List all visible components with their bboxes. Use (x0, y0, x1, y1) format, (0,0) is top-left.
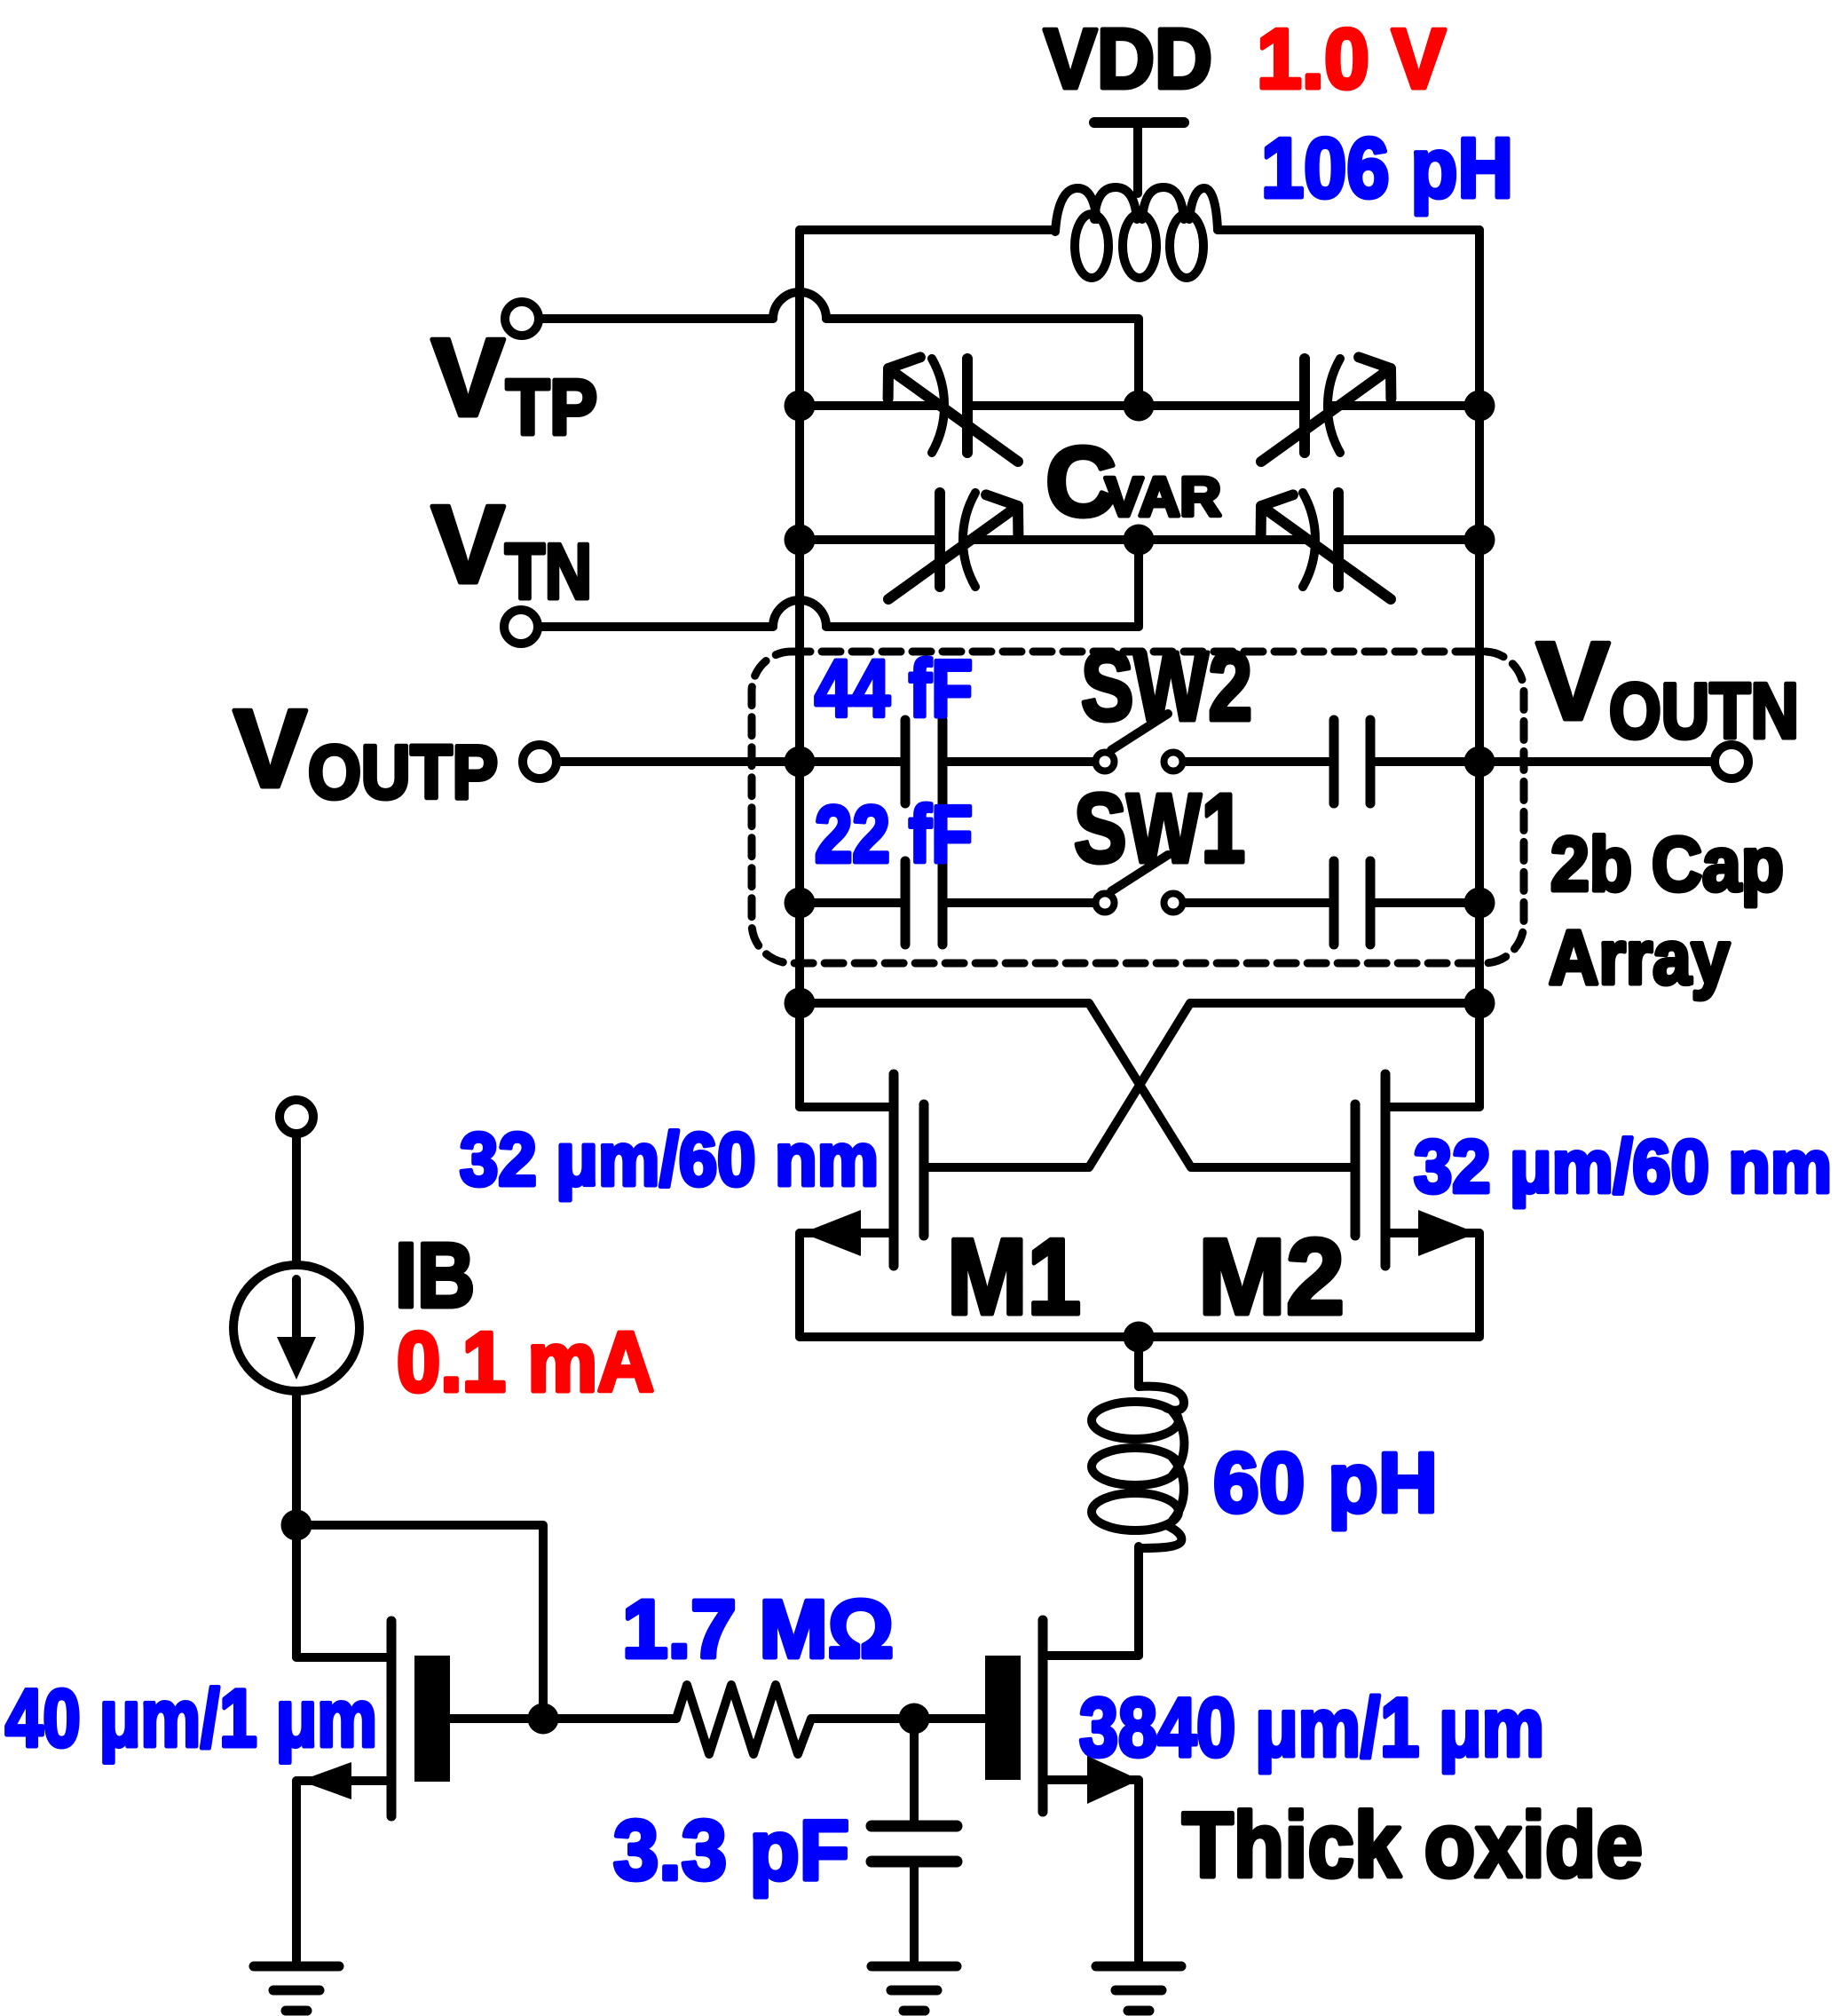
VDD supply bar symbol (1094, 117, 1184, 128)
svg-text:M1: M1 (947, 1216, 1081, 1337)
node tail (1124, 1322, 1155, 1353)
node row1 left (785, 391, 816, 422)
node IB mirror (281, 1510, 312, 1541)
terminal VTP (505, 302, 539, 336)
svg-text:V: V (1536, 621, 1610, 743)
capacitor 44fF left plates (901, 720, 911, 803)
ground C5 (872, 1962, 957, 1972)
resistor R1 1.7 MOhm (543, 1714, 676, 1723)
wire VOUTN (1479, 757, 1715, 766)
inductor L2 60 pH coil (1092, 1402, 1179, 1439)
varactor C3 curved plate (963, 493, 975, 587)
wire hop over left rail (VTN) (773, 600, 826, 627)
varactor C3 arrow (888, 494, 1018, 599)
svg-text:TN: TN (505, 527, 592, 615)
node M3 gate (899, 1704, 930, 1735)
svg-text:SW2: SW2 (1081, 632, 1252, 741)
svg-text:Thick oxide: Thick oxide (1182, 1794, 1643, 1897)
varactor row1 left lead (800, 401, 943, 410)
varactor C4 curved plate (1303, 493, 1315, 587)
wire row A to SW2 (948, 757, 1094, 766)
svg-text:Array: Array (1549, 915, 1730, 1000)
node row2 right (1464, 525, 1495, 556)
varactor C2 arrow (1261, 357, 1391, 462)
svg-text:32 μm/60 nm: 32 μm/60 nm (460, 1118, 879, 1201)
tail rail (800, 1332, 1479, 1341)
node row1 right (1464, 391, 1495, 422)
terminal VOUTP (523, 745, 556, 779)
cap array row A left lead (800, 757, 900, 766)
svg-text:IB: IB (395, 1224, 475, 1326)
varactor C1 arrow (888, 357, 1018, 462)
inductor L1 106 pH coil (1075, 214, 1108, 278)
svg-text:TP: TP (506, 363, 597, 451)
varactor C4 arrow (1261, 494, 1391, 599)
ground M4 (254, 1962, 339, 1972)
varactor row1 mid lead left (967, 401, 1139, 410)
svg-text:VDD: VDD (1044, 12, 1212, 107)
current source IB terminal (280, 1100, 313, 1134)
node rowA right (1464, 747, 1495, 778)
cap array row B left lead (800, 898, 900, 907)
svg-text:VAR: VAR (1105, 467, 1221, 528)
cap array row B right lead (1376, 898, 1479, 907)
svg-text:32 μm/60 nm: 32 μm/60 nm (1414, 1125, 1832, 1208)
capacitor 22fF left plates (901, 861, 911, 945)
varactor row2 mid lead left (963, 535, 1139, 544)
svg-text:SW1: SW1 (1074, 774, 1245, 883)
svg-text:V: V (431, 317, 505, 439)
varactor row2 left lead (800, 535, 935, 544)
varactor C1 straight plate (962, 359, 973, 453)
svg-text:M2: M2 (1198, 1216, 1345, 1337)
capacitor 22fF right plates (1329, 861, 1339, 945)
node row2 left (785, 525, 816, 556)
transistor M3 3840um/1um thick oxide (1048, 1651, 1139, 1660)
capacitor C5 3.3 pF (910, 1719, 919, 1821)
node row1 center (1124, 391, 1155, 422)
svg-text:OUTN: OUTN (1609, 667, 1799, 755)
node row2 center (1124, 525, 1155, 556)
wire SW2 to right cap (1184, 757, 1329, 766)
svg-text:2b Cap: 2b Cap (1550, 822, 1784, 907)
svg-text:60 pH: 60 pH (1213, 1435, 1438, 1530)
ground M3 (1096, 1962, 1181, 1972)
cross-coupling wire to M1 gate (924, 1003, 1479, 1167)
svg-text:40 μm/1 μm: 40 μm/1 μm (5, 1673, 377, 1764)
wire hop over left rail (VTP) (773, 292, 826, 319)
varactor row1 right lead (1328, 401, 1479, 410)
capacitor 44fF right plates (1329, 720, 1339, 803)
svg-text:3840 μm/1 μm: 3840 μm/1 μm (1079, 1680, 1544, 1774)
varactor C2 curved plate (1328, 359, 1340, 453)
node cross left (785, 988, 816, 1019)
varactor C1 curved plate (932, 359, 944, 453)
switch SW2 (1096, 753, 1115, 771)
2b cap array dashed box (752, 652, 1524, 963)
wire SW1 to right cap (1184, 898, 1329, 907)
transistor M2 (1381, 1074, 1391, 1266)
cross-coupling wire to M2 gate (800, 1003, 1355, 1167)
svg-text:V: V (233, 688, 307, 810)
varactor row2 mid lead right (1139, 535, 1315, 544)
inductor L1 106 pH top leads (800, 225, 1055, 234)
right rail (VOUTN net) (1475, 230, 1484, 1107)
varactor C3 straight plate (935, 493, 945, 587)
svg-text:44 fF: 44 fF (815, 644, 973, 734)
node M4 gate (528, 1704, 559, 1735)
svg-text:0.1 mA: 0.1 mA (397, 1315, 654, 1410)
node rowB right (1464, 888, 1495, 919)
node cross right (1464, 988, 1495, 1019)
varactor C4 straight plate (1333, 493, 1344, 587)
left rail (VOUTP net) (795, 230, 804, 1107)
wire row B to SW1 (948, 898, 1094, 907)
svg-text:OUTP: OUTP (308, 731, 498, 815)
wire VTP (539, 314, 773, 323)
svg-text:1.0 V: 1.0 V (1257, 12, 1446, 107)
svg-text:V: V (431, 484, 505, 606)
inductor L2 60 pH leads (1134, 1337, 1143, 1387)
switch SW1 (1096, 894, 1115, 913)
svg-text:1.7 MΩ: 1.7 MΩ (622, 1583, 894, 1675)
varactor C2 straight plate (1299, 359, 1310, 453)
wire VOUTP (556, 757, 800, 766)
wire IB bottom (292, 1391, 301, 1525)
node rowB left (785, 888, 816, 919)
varactor row2 right lead (1344, 535, 1479, 544)
transistor M4 40um/1um (292, 1530, 301, 1657)
svg-text:22 fF: 22 fF (815, 790, 973, 880)
varactor row1 mid lead right (1139, 401, 1305, 410)
svg-text:3.3 pF: 3.3 pF (613, 1803, 849, 1898)
wire VTN (538, 622, 773, 631)
node rowA left (785, 747, 816, 778)
wire VTP to varactor row1 center (826, 314, 1139, 323)
terminal VTN (504, 610, 538, 644)
svg-text:106 pH: 106 pH (1261, 121, 1513, 216)
wire IB top (292, 1134, 301, 1265)
terminal VOUTN (1715, 745, 1748, 779)
wire VTN to varactor row2 center (826, 622, 1139, 631)
transistor M1 (889, 1074, 899, 1266)
wire mirror gate (296, 1525, 543, 1719)
current source IB (233, 1265, 359, 1391)
cap array row A right lead (1376, 757, 1479, 766)
